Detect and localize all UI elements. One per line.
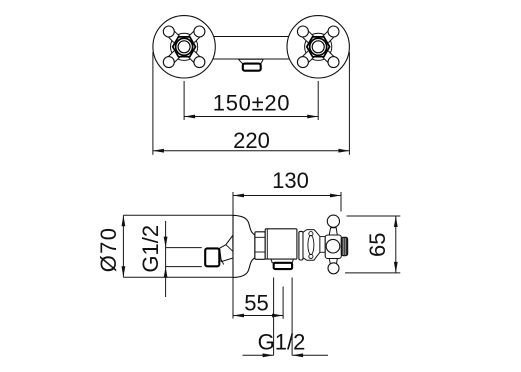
svg-text:G1/2: G1/2 [258, 329, 306, 354]
svg-text:Ø70: Ø70 [96, 227, 121, 272]
svg-text:G1/2: G1/2 [138, 225, 163, 273]
svg-text:150±20: 150±20 [213, 91, 290, 116]
svg-text:65: 65 [365, 233, 390, 257]
svg-text:55: 55 [244, 291, 268, 316]
svg-text:130: 130 [272, 168, 309, 193]
svg-text:220: 220 [233, 128, 270, 153]
